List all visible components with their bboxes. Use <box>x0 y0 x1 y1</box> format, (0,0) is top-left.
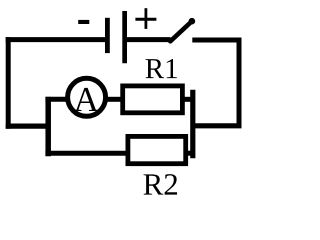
svg-text:R2: R2 <box>143 167 179 202</box>
wire left rail vertical <box>6 37 11 129</box>
resistor R1 body <box>123 86 183 113</box>
wire battery to switch <box>127 37 171 42</box>
ammeter circle <box>68 78 106 116</box>
svg-text:A: A <box>74 80 100 119</box>
node right junction bar <box>190 90 195 158</box>
wire top-left horizontal <box>6 37 105 42</box>
label + (positive) <box>135 8 156 29</box>
label - (negative) <box>78 20 89 24</box>
node left junction bar <box>45 97 51 156</box>
wire right rail vertical <box>237 38 242 126</box>
battery B1 negative plate <box>105 18 110 53</box>
wire ammeter to R1 <box>106 97 122 102</box>
wire left bar to ammeter <box>45 97 67 102</box>
resistor R2 body <box>128 136 186 163</box>
wire R1 to right bar <box>183 97 193 102</box>
wire right connector horizontal <box>193 123 242 128</box>
svg-text:R1: R1 <box>145 53 179 85</box>
switch S1 blade <box>170 21 192 41</box>
wire switch to top-right corner <box>192 38 241 43</box>
wire bottom-left horizontal <box>6 123 48 128</box>
wire R2 to right bar <box>185 151 193 156</box>
battery B1 positive plate <box>122 11 127 63</box>
wire left bar to R2 <box>45 151 128 156</box>
switch S1 blade tip <box>189 18 196 25</box>
